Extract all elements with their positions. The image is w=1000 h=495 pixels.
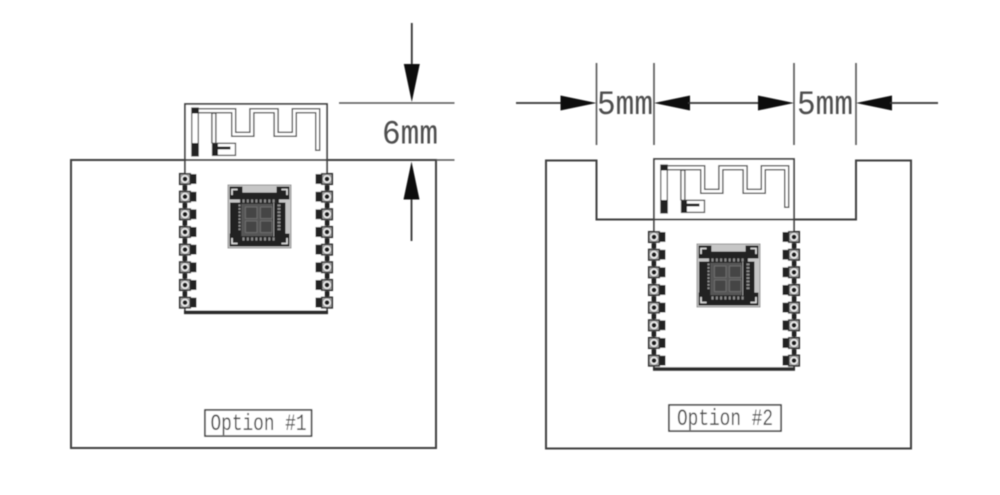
- 6mm dimension arrow pointing up: [404, 162, 420, 242]
- Option #2 label box: [669, 405, 781, 431]
- castellated pads, right edge (Option #1 module): [316, 174, 333, 308]
- extension line at notch right edge: [855, 63, 857, 145]
- svg-text:Option #2: Option #2: [677, 406, 773, 432]
- 5mm dimension arrow from right: [856, 96, 938, 111]
- castellated pads, right edge (Option #2 module): [783, 232, 800, 366]
- module bottom edge (thick) Option #1: [184, 310, 328, 314]
- Option #1 label box: [205, 410, 312, 436]
- QFN chip U2 (Option #2 module): [697, 244, 760, 307]
- centre dimension line with outward arrows: [654, 96, 794, 111]
- module outline (Option #2 ESP module): [654, 159, 794, 370]
- QFN chip U1 (Option #1 module): [228, 185, 291, 248]
- module bottom edge (thick) Option #2: [653, 367, 795, 371]
- castellated pads, left edge (Option #1 module): [180, 174, 197, 308]
- 6mm dimension arrow pointing down: [404, 23, 420, 102]
- dimension line at module top (6mm upper reference): [339, 102, 455, 104]
- svg-text:5mm: 5mm: [797, 87, 853, 125]
- extension line at notch left edge: [596, 63, 598, 145]
- main PCB outline with antenna notch (Option #2 board): [546, 161, 911, 449]
- PCB meander antenna (Option #2 module): [661, 165, 787, 213]
- extension line at module right edge: [793, 63, 795, 145]
- PCB meander antenna (Option #1 module): [192, 108, 318, 156]
- module outline (Option #1 ESP module): [185, 104, 327, 313]
- extension line at module left edge: [653, 63, 655, 145]
- 5mm dimension arrow from left: [516, 96, 597, 111]
- svg-text:5mm: 5mm: [597, 87, 653, 125]
- castellated pads, left edge (Option #2 module): [649, 232, 666, 366]
- svg-text:Option #1: Option #1: [211, 411, 307, 437]
- svg-text:6mm: 6mm: [382, 117, 438, 155]
- main PCB outline (Option #1 board): [71, 160, 436, 448]
- PCB top-edge extension line (dimension reference): [436, 159, 455, 161]
